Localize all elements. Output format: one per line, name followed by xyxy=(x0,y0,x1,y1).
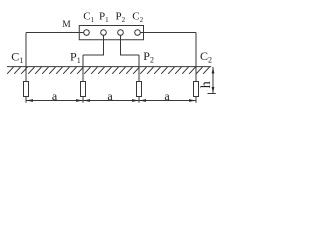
wire C1 horizontal xyxy=(26,32,84,34)
wire P1 vertical xyxy=(82,55,84,82)
dimension h line xyxy=(212,67,214,94)
svg-text:C1: C1 xyxy=(11,50,23,65)
wire C2 vertical xyxy=(195,33,197,82)
terminal P1 xyxy=(101,30,107,36)
wire P2 vertical xyxy=(138,55,140,82)
svg-text:a: a xyxy=(52,89,58,103)
svg-text:P2: P2 xyxy=(143,49,154,64)
wire P2 drop from terminal xyxy=(120,35,122,55)
electrode P2 xyxy=(137,82,142,97)
svg-text:a: a xyxy=(107,89,113,103)
extension stub below P2 xyxy=(138,97,140,103)
svg-text:a: a xyxy=(164,89,170,103)
arrowhead at C1 pointing left xyxy=(26,99,33,102)
instrument M box xyxy=(79,26,143,40)
arrowheads at P2 xyxy=(132,99,139,102)
extension stub below C1 xyxy=(25,97,27,103)
svg-text:P2: P2 xyxy=(116,11,126,24)
extension stub below C2 xyxy=(195,97,197,103)
arrowhead at C2 pointing right xyxy=(189,99,196,102)
wire P1 drop from terminal xyxy=(103,35,105,55)
wire C1 vertical xyxy=(25,33,27,82)
terminal P2 xyxy=(118,30,124,36)
wire C2 horizontal xyxy=(140,32,196,34)
svg-text:C1: C1 xyxy=(83,11,94,24)
wire P2 jog xyxy=(120,54,139,56)
electrode C1 xyxy=(24,82,29,97)
dimension line a xyxy=(26,100,196,102)
svg-text:h: h xyxy=(199,81,214,88)
arrowhead h bottom xyxy=(212,87,215,93)
ground hatching xyxy=(7,67,209,74)
ground surface line xyxy=(7,66,211,68)
svg-text:M: M xyxy=(62,20,71,30)
svg-text:P1: P1 xyxy=(70,50,81,65)
extension stub below P1 xyxy=(82,97,84,103)
terminal C2 xyxy=(135,30,141,36)
terminal C1 xyxy=(84,30,90,36)
wire P1 jog xyxy=(83,54,104,56)
arrowheads at P1 xyxy=(76,99,83,102)
arrowhead h top xyxy=(212,67,215,73)
dimension h bottom extension xyxy=(208,93,216,95)
electrode P1 xyxy=(81,82,86,97)
svg-text:P1: P1 xyxy=(99,11,109,24)
electrode C2 xyxy=(194,82,199,97)
svg-text:C2: C2 xyxy=(132,11,143,24)
svg-text:C2: C2 xyxy=(200,49,212,64)
